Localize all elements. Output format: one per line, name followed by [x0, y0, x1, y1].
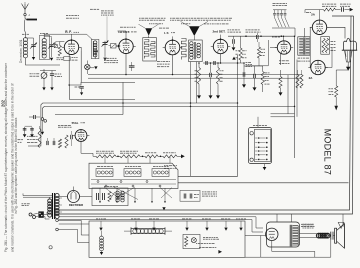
trimmer capacitor — [54, 45, 57, 48]
wire shield top — [331, 16, 333, 48]
resistor R5 — [197, 68, 200, 85]
wire IF transformer down short — [196, 62, 198, 104]
cable box text — [203, 236, 205, 238]
label 2L1 — [40, 32, 42, 34]
label 110V — [22, 203, 24, 205]
resistor R8 — [261, 72, 264, 85]
rectifier wires — [59, 196, 68, 198]
ground right of lamp — [90, 67, 94, 69]
output unit bottom wires — [245, 235, 267, 237]
label above 1st DET — [120, 26, 123, 28]
labels above output resistor — [322, 3, 324, 5]
tube V8 output 2A lower — [311, 60, 325, 74]
svg-text:55AL: 55AL — [72, 121, 79, 125]
ground mid bottom — [162, 207, 165, 210]
power transformer secondary — [55, 194, 59, 198]
shielded cable — [131, 228, 165, 230]
condenser bank — [273, 9, 287, 11]
ground below C10 — [232, 47, 236, 50]
ground below phono — [41, 120, 43, 131]
ground below RF choke — [100, 252, 103, 255]
divider labels — [96, 150, 99, 152]
capacitor at phono — [33, 115, 35, 119]
voltage divider resistor chain — [93, 155, 96, 157]
svg-text:I. F.: I. F. — [164, 31, 169, 35]
filter capacitors — [96, 193, 98, 200]
svg-text:2nd DET.: 2nd DET. — [212, 30, 225, 34]
oscillator padder lamp — [86, 61, 88, 65]
IF transformer 2 shield triangle — [189, 26, 200, 36]
resistor to ground right — [335, 70, 337, 86]
wire fuse to transformer — [44, 212, 47, 214]
grounds AVC — [24, 127, 26, 134]
divider drop wires — [104, 156, 106, 163]
plate resistor top — [324, 8, 336, 11]
output unit top wires — [276, 214, 278, 222]
label right of C6 — [55, 73, 57, 75]
resistor R1 — [58, 46, 61, 56]
tuning capacitor C2 — [51, 38, 53, 44]
wires to terminal block — [271, 113, 295, 115]
transformer terminals — [56, 219, 59, 222]
meander before IF transformer 2 — [181, 39, 186, 60]
RF coil shield box — [40, 35, 50, 59]
label right of box2 — [202, 191, 204, 193]
ground below C14 — [242, 84, 246, 87]
IF transformer 2 — [189, 40, 203, 62]
screen resistor — [279, 77, 282, 89]
oscillator coil shield box — [91, 39, 99, 58]
label below 1A — [279, 60, 281, 62]
labels below R4 — [246, 62, 248, 64]
tube V4 I.F. — [165, 40, 180, 55]
antenna terminal — [24, 13, 26, 15]
component AVC4 — [70, 135, 72, 139]
wire vertical x123 — [122, 82, 124, 114]
socket wiring — [91, 179, 176, 181]
resistor AVC1 — [38, 129, 41, 148]
wire vertical to volume bus — [237, 55, 239, 103]
bus with coupling caps — [203, 62, 239, 64]
label right of R8 — [265, 72, 268, 74]
capacitor C15 — [253, 74, 255, 78]
socket can labels — [97, 166, 100, 168]
wire 2nd DET down — [220, 54, 222, 63]
svg-text:RECTIFIER: RECTIFIER — [69, 203, 83, 207]
switch leads — [23, 195, 52, 197]
wire RF cathode down — [68, 54, 70, 85]
svg-text:MODEL 87: MODEL 87 — [323, 129, 333, 175]
label below RF tube — [64, 57, 70, 61]
ground below C2 — [50, 58, 53, 61]
label above padding condenser — [90, 8, 93, 10]
wire 1A grid to bus — [282, 36, 284, 41]
socket crossing wires — [114, 187, 138, 200]
wire mid vertical — [287, 75, 289, 114]
oscillator coil L3 — [92, 41, 94, 56]
tube V1 R.F. — [64, 40, 78, 54]
label above IF tube — [159, 27, 162, 29]
antenna switch — [24, 16, 26, 19]
capacitor AVC2 — [52, 141, 54, 145]
speaker unit — [344, 38, 357, 50]
cable box — [89, 221, 245, 257]
capacitor C6 — [50, 73, 54, 75]
speaker cone — [335, 228, 337, 243]
wire 1st DET down — [125, 54, 127, 75]
svg-text:in Fig. 2B2 and the speaker ca: in Fig. 2B2 and the speaker cable plug u… — [14, 117, 18, 214]
phono jack — [41, 118, 44, 121]
label L1 — [22, 33, 25, 35]
wire plate to resistor — [319, 10, 321, 21]
field choke — [300, 233, 318, 235]
tube V6 1st AF — [277, 41, 290, 54]
RF coil L2 — [41, 39, 43, 58]
arrow top right — [350, 8, 354, 12]
label 1A — [272, 36, 274, 38]
bias resistor box — [321, 37, 330, 55]
label left of volume — [30, 73, 32, 75]
ground below C6 — [50, 87, 53, 90]
labels around R4 — [236, 50, 238, 52]
IF transformer 1 — [143, 38, 157, 61]
wire long vertical right — [294, 36, 296, 158]
open triangle symbol — [338, 222, 344, 228]
cathode capacitor 1st DET — [129, 65, 135, 67]
wire audio bus — [244, 65, 263, 67]
filter label — [104, 186, 106, 188]
power transformer core — [52, 193, 54, 219]
wire L1 bottom — [26, 58, 61, 66]
wire IF transformer down long — [190, 62, 192, 177]
svg-text:Fig. 2B1 — The schematic circu: Fig. 2B1 — The schematic circuit of the … — [4, 62, 8, 252]
border outer line — [54, 16, 354, 214]
ground below C1 — [32, 57, 35, 60]
capacitor at speaker — [330, 232, 332, 240]
border inner line — [54, 16, 351, 210]
volume control — [43, 69, 45, 73]
terminal block inner — [254, 129, 270, 161]
heater fan wires — [59, 216, 256, 218]
label right of R7 — [261, 48, 263, 50]
capacitor C10 — [232, 39, 234, 44]
wire from block bottom — [178, 103, 238, 176]
grommet — [49, 246, 52, 249]
wire avc top — [25, 125, 32, 127]
arrow below resistor — [334, 106, 338, 111]
antenna — [22, 5, 25, 14]
tube V7 output 2A — [312, 20, 326, 34]
speaker wires up — [344, 27, 346, 41]
wires tubes to speaker — [327, 27, 345, 38]
wire horizontal y114 — [55, 114, 123, 116]
capacitor C11 — [256, 35, 258, 39]
wire 2nd DET grid — [220, 35, 222, 40]
label above RF tube — [66, 15, 68, 17]
ground below speaker — [347, 62, 349, 67]
svg-text:December, 1931: December, 1931 — [19, 39, 23, 63]
capacitor AVC1 — [46, 141, 48, 145]
junction dots — [125, 74, 127, 76]
resistor R7 — [257, 47, 260, 58]
tube socket cans — [96, 169, 113, 177]
socket drop wires — [99, 188, 101, 201]
gang line to C3 — [106, 16, 108, 40]
wire transformer top — [303, 28, 305, 37]
sockets box — [89, 163, 178, 188]
svg-text:1st DET.: 1st DET. — [118, 30, 130, 34]
capacitor C14 — [242, 72, 244, 77]
label tone control — [228, 29, 229, 31]
arrow into 1st DET grid — [118, 45, 121, 47]
terminal block bolts — [250, 132, 253, 135]
wire IF down — [172, 55, 174, 75]
label left of R5 — [195, 70, 198, 72]
wire 1st DET grid — [118, 31, 127, 39]
label compensating condenser — [246, 29, 248, 31]
output transformer — [289, 225, 291, 247]
tube V5 2nd DET — [213, 39, 227, 53]
tube V9 rectifier — [68, 191, 80, 203]
IF transformer 1 shield triangle — [145, 28, 152, 35]
dial lamp circuit — [183, 234, 200, 248]
antenna coil L1 — [23, 38, 25, 58]
output unit box — [267, 222, 300, 247]
wire bank down — [272, 27, 295, 29]
padding capacitor C3 — [103, 42, 108, 44]
svg-text:202: 202 — [1, 99, 6, 107]
tube V3 55A — [75, 130, 87, 142]
wire heater bus A — [88, 74, 302, 76]
power transformer primary — [48, 199, 52, 203]
RF choke in cable box — [101, 231, 103, 237]
terminal block label — [253, 125, 255, 127]
label below border — [303, 223, 305, 225]
ground below C3 — [103, 58, 106, 61]
label grid suppressor — [58, 124, 60, 126]
switch label — [164, 165, 166, 167]
labels above IF transformer 1 — [139, 17, 141, 19]
resistor R6 — [216, 68, 219, 85]
divider ground arrow — [181, 154, 185, 158]
label left of resistor — [329, 88, 331, 90]
filter switch levers — [110, 192, 115, 199]
bus line 1 — [28, 103, 238, 146]
tube V10 output stage — [266, 228, 278, 240]
terminal block ground — [264, 164, 266, 167]
wire bank to bus — [282, 33, 284, 36]
label 3 TO 30 — [104, 57, 106, 59]
capacitor top right — [341, 7, 343, 12]
divider junction dots — [117, 156, 119, 158]
shield box volume — [69, 82, 135, 85]
wire bus y36 — [228, 35, 295, 37]
junction arrow — [232, 57, 236, 60]
wire R1 to grid — [60, 42, 65, 46]
label above condenser bank — [273, 2, 276, 4]
AC plug — [29, 213, 32, 216]
wire right loop — [246, 40, 268, 66]
bus line 2 — [42, 106, 294, 117]
ground below volume — [42, 87, 45, 90]
tube V2 1st DET — [119, 39, 133, 53]
interstage transformer — [298, 37, 310, 55]
wire RF plate down — [80, 51, 82, 82]
label below IF tube — [157, 61, 160, 63]
label right of R6 — [220, 70, 221, 72]
fuse block — [38, 211, 43, 217]
filter box — [92, 188, 128, 206]
resistor AVC2 — [58, 139, 61, 148]
resistor R4 — [239, 48, 242, 60]
label below R1 — [57, 57, 60, 59]
wire 1A down — [279, 54, 281, 65]
grounds below detector loads — [198, 84, 200, 95]
ground in shield box — [81, 88, 83, 92]
resistor below osc box — [93, 50, 97, 52]
labels top middle — [170, 17, 172, 19]
wire heater bus B — [88, 77, 302, 79]
svg-text:R. F.: R. F. — [65, 30, 72, 34]
capacitor in shield box — [79, 86, 83, 88]
cathode resistors — [296, 75, 299, 89]
wire 55A down — [81, 141, 93, 156]
output transformer label — [301, 223, 303, 225]
coupling capacitor C12 — [209, 73, 211, 77]
tuning capacitor C1 — [33, 38, 35, 44]
wire RF grid cap — [72, 34, 93, 40]
border top right segment — [332, 15, 354, 17]
label below interstage — [298, 57, 301, 59]
cable box arrow — [218, 250, 222, 254]
cable box terminals — [96, 218, 98, 220]
terminal block outline — [248, 127, 271, 163]
terminal block pins — [258, 137, 260, 139]
wire volume top — [40, 70, 56, 72]
ground below C15 — [253, 87, 257, 90]
small box 2 — [180, 190, 200, 201]
ground below screen resistor — [279, 92, 283, 95]
wire under terminal block — [178, 182, 349, 184]
wire antenna to coil — [25, 20, 26, 39]
resistor AVC3 — [65, 135, 68, 148]
trimmer at 1st DET grid — [111, 44, 117, 48]
